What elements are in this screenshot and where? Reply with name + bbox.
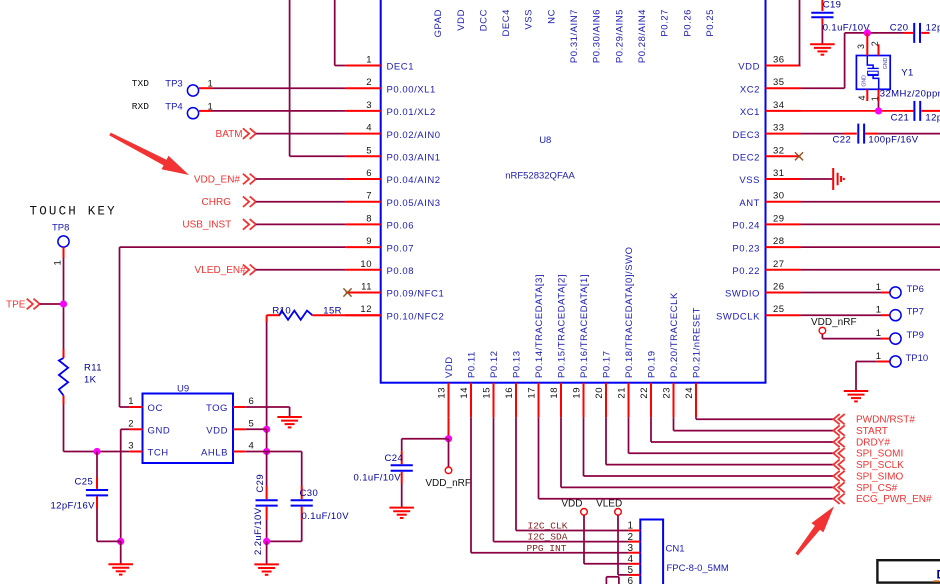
- svg-text:TP3: TP3: [165, 79, 182, 90]
- U8 pin 30 name: [739, 198, 760, 209]
- svg-text:ECG_PWR_EN#: ECG_PWR_EN#: [856, 494, 932, 505]
- U8 pin 28 name: [732, 243, 760, 254]
- wire SWDCLK to TP7: [801, 314, 890, 316]
- C22 value: [868, 135, 918, 146]
- C19 designator: [823, 0, 842, 11]
- capacitor C22 100pF/16V: [858, 124, 940, 144]
- svg-text:4: 4: [627, 554, 633, 565]
- U8 pin 33 number: [773, 123, 785, 134]
- svg-text:P0.12: P0.12: [489, 350, 500, 378]
- svg-text:P0.27: P0.27: [660, 9, 671, 37]
- U8 pin 20 P0.17 stub: [605, 383, 607, 418]
- svg-text:2.2uF/10V: 2.2uF/10V: [253, 507, 264, 555]
- svg-text:DCC: DCC: [478, 9, 489, 31]
- junction C25 bottom / GND: [117, 538, 124, 545]
- port SPI_SIMO chevron: [833, 471, 844, 481]
- svg-text:36: 36: [773, 55, 785, 66]
- ground below U9 GND: [108, 541, 133, 574]
- U8 pin 19 P0.16/TRACEDATA[1] stub: [583, 383, 585, 418]
- wire VLED to CN1 pin5: [618, 515, 629, 575]
- U9 pin 4 name: [201, 448, 228, 459]
- svg-text:100pF/16V: 100pF/16V: [868, 135, 918, 146]
- section title TOUCH KEY: [30, 205, 117, 219]
- TP7 pin1 number: [876, 305, 881, 316]
- C20 value 12p: [926, 23, 940, 34]
- U8 pin 34 name: [740, 107, 760, 118]
- testpoint TP9 circle: [890, 333, 901, 344]
- port USB_INST chevron: [243, 219, 256, 230]
- svg-text:GND: GND: [883, 57, 889, 69]
- CN1 pin 2 stub: [629, 541, 641, 543]
- R10 value 15R: [323, 306, 342, 317]
- svg-text:VSS: VSS: [524, 9, 535, 30]
- U9 pin 6 name: [206, 403, 228, 414]
- svg-text:3: 3: [627, 543, 633, 554]
- svg-text:SWDCLK: SWDCLK: [716, 311, 760, 322]
- testpoint TP4 label: [165, 101, 182, 112]
- U8 top pin P0.27 name (rotated): [660, 9, 671, 37]
- svg-text:13: 13: [436, 387, 447, 399]
- svg-text:XC2: XC2: [740, 84, 760, 95]
- resistor R10 15R: [267, 311, 381, 320]
- port TPE chevron: [27, 299, 40, 310]
- svg-text:32MHz/20ppm: 32MHz/20ppm: [880, 89, 940, 100]
- U8 pin 24 P0.21/nRESET stub: [695, 383, 697, 418]
- svg-text:P0.23: P0.23: [732, 243, 760, 254]
- port BATM label: [216, 129, 243, 140]
- annotation arrow pointing at VDD_EN#: [109, 133, 189, 175]
- U8 pin 6 P0.04/AIN2 stub: [346, 178, 381, 180]
- CN1 designator: [666, 544, 685, 555]
- U8 pin 34 number: [773, 100, 785, 111]
- svg-text:2: 2: [627, 532, 633, 543]
- svg-text:P0.31/AIN7: P0.31/AIN7: [569, 9, 580, 63]
- CN1 pin 4 stub: [629, 563, 641, 565]
- U8 pin 20 number (rotated): [594, 387, 605, 399]
- svg-text:22: 22: [639, 387, 650, 399]
- junction R10 net / AHLB: [263, 448, 270, 455]
- U8 pin 22 name (rotated): [647, 350, 658, 378]
- svg-text:DEC1: DEC1: [387, 62, 415, 73]
- ground below C29: [254, 541, 279, 574]
- wire U9 GND to ground: [121, 429, 130, 541]
- svg-text:0.1uF/10V: 0.1uF/10V: [354, 473, 402, 484]
- C22 designator: [833, 135, 852, 146]
- svg-text:19: 19: [571, 387, 582, 399]
- svg-text:1: 1: [876, 282, 881, 293]
- svg-text:P0.05/AIN3: P0.05/AIN3: [387, 198, 441, 209]
- U8 top pin VDD name (rotated): [456, 9, 467, 31]
- capacitor C20 12p: [904, 23, 930, 43]
- Y1 crystal symbol: [867, 56, 878, 90]
- wire DEC1 net from top: [335, 0, 346, 66]
- U8 pin 36 VDD stub: [766, 65, 801, 67]
- testpoint TP10 circle: [890, 356, 901, 367]
- svg-text:5: 5: [249, 419, 254, 430]
- U8 pin 13 number (rotated): [436, 387, 447, 399]
- svg-text:P0.10/NFC2: P0.10/NFC2: [387, 311, 445, 322]
- U8 pin 33 name: [732, 130, 760, 141]
- U8 pin 4 name: [387, 130, 441, 141]
- capacitor C19 0.1uF/10V: [811, 0, 833, 44]
- svg-text:P0.21/nRESET: P0.21/nRESET: [692, 307, 703, 378]
- C20 designator: [890, 23, 909, 34]
- U8 pin 10 P0.08 stub: [346, 269, 381, 271]
- svg-text:1: 1: [870, 96, 880, 101]
- svg-text:P0.28/AIN4: P0.28/AIN4: [637, 9, 648, 63]
- wire U9 TOG to ground: [246, 407, 290, 417]
- U8 pin 22 P0.19 stub: [650, 383, 652, 418]
- port ECG_PWR_EN# label: [856, 494, 932, 505]
- svg-text:P0.11: P0.11: [467, 351, 478, 378]
- U8 pin 8 number: [366, 213, 372, 224]
- U8 top pin P0.26 name (rotated): [682, 9, 693, 37]
- wire ECG_PWR_EN# from U8 pin 17: [539, 417, 834, 499]
- svg-text:TP8: TP8: [52, 223, 69, 234]
- svg-text:P0.20/TRACECLK: P0.20/TRACECLK: [669, 292, 680, 378]
- U8 pin 30 ANT stub: [766, 201, 801, 203]
- svg-text:TP4: TP4: [165, 101, 182, 112]
- C25 value: [51, 500, 96, 511]
- U8 pin 21 name (rotated): [624, 246, 635, 378]
- U8 pin 1 number: [366, 55, 372, 66]
- power port VDD_nRF at pin13: [445, 439, 452, 474]
- svg-text:nRF52832QFAA: nRF52832QFAA: [505, 170, 575, 181]
- svg-text:25: 25: [773, 304, 785, 315]
- svg-text:VDD: VDD: [456, 9, 467, 31]
- svg-text:P0.18/TRACEDATA[0]/SWO: P0.18/TRACEDATA[0]/SWO: [624, 246, 635, 378]
- svg-text:Y1: Y1: [901, 68, 913, 79]
- wire VSS to ground: [801, 178, 833, 180]
- port VLED_EN# chevron: [243, 265, 256, 276]
- U8 pin 3 name: [387, 107, 436, 118]
- wire SPI_SOMI from U8 pin 21: [629, 417, 834, 453]
- U8 top pin P0.29/AIN5 name (rotated): [614, 9, 625, 63]
- wire SPI_SIMO from U8 pin 19: [584, 417, 834, 476]
- U9 pin 4 number: [249, 441, 254, 452]
- svg-text:VDD_nRF: VDD_nRF: [425, 478, 471, 489]
- svg-text:29: 29: [773, 213, 785, 224]
- Y1 pin 4 stub: [866, 89, 868, 101]
- wire SPI_CS# from U8 pin 18: [561, 417, 833, 487]
- U8 pin 5 P0.03/AIN1 stub: [346, 155, 381, 157]
- svg-text:FPC-8-0_5MM: FPC-8-0_5MM: [667, 563, 729, 574]
- U8 pin 1 name: [387, 62, 415, 73]
- svg-text:DEC3: DEC3: [732, 130, 760, 141]
- ground below C19: [810, 44, 835, 54]
- port SPI_CS# chevron: [833, 482, 844, 492]
- VDD_nRF label at pin13: [425, 478, 471, 489]
- svg-text:P0.03/AIN1: P0.03/AIN1: [387, 153, 441, 164]
- svg-text:D: D: [937, 568, 940, 582]
- U8 pin 12 number: [360, 304, 372, 315]
- power port VDD_nRF at TP9: [811, 317, 857, 334]
- svg-text:1: 1: [128, 396, 133, 407]
- svg-text:P0.30/AIN6: P0.30/AIN6: [592, 9, 603, 63]
- svg-text:5: 5: [366, 145, 372, 156]
- U9 pin 3 TCH stub: [130, 451, 143, 453]
- Y1 pin 3 wire: [866, 33, 868, 56]
- wire ANT net: [801, 201, 940, 203]
- wire P0.12 to CN1 pin2 I2C_SDA: [494, 417, 629, 541]
- wire START from U8 pin 23: [674, 417, 834, 430]
- testpoint TP8 circle: [58, 236, 69, 247]
- testpoint TP3 pin1 number: [208, 79, 213, 90]
- U8 pin 14 P0.11 stub: [470, 383, 472, 418]
- svg-text:PWDN/RST#: PWDN/RST#: [856, 415, 915, 426]
- U8 pin 8 name: [387, 221, 415, 232]
- port VDD_EN# label: [194, 174, 241, 185]
- svg-text:CN1: CN1: [666, 544, 685, 555]
- Y1 pin2 number (rotated): [870, 41, 880, 46]
- svg-text:VDD: VDD: [206, 425, 228, 436]
- svg-text:7: 7: [366, 191, 372, 202]
- U8 pin 3 number: [366, 100, 372, 111]
- svg-text:26: 26: [773, 282, 785, 293]
- svg-text:P0.14/TRACEDATA[3]: P0.14/TRACEDATA[3]: [534, 274, 545, 378]
- svg-text:20: 20: [594, 387, 605, 399]
- port CHRG label: [202, 197, 232, 208]
- U8 pin 26 SWDIO stub: [766, 292, 801, 294]
- svg-text:P0.25: P0.25: [705, 9, 716, 37]
- U8 pin 2 P0.00/XL1 stub: [346, 87, 381, 89]
- junction TCH / C25: [93, 448, 100, 455]
- svg-text:C29: C29: [255, 474, 266, 493]
- CN1 pin 6 number: [627, 576, 633, 584]
- TP6 label: [907, 284, 924, 295]
- svg-text:TXD: TXD: [132, 78, 149, 89]
- U8 pin 14 number (rotated): [459, 387, 470, 399]
- wire R10 to U9 VDD net: [266, 315, 268, 429]
- U8 pin 27 P0.22 stub: [766, 269, 801, 271]
- TP9 label: [907, 330, 924, 341]
- U9 pin 3 number: [128, 441, 133, 452]
- U8 pin 24 number (rotated): [684, 387, 695, 399]
- testpoint TP4 circle: [187, 108, 198, 119]
- U8 pin 9 P0.07 stub: [346, 246, 381, 248]
- testpoint TP8 label: [52, 223, 69, 234]
- U8 pin 21 P0.18/TRACEDATA[0]/SWO stub: [628, 383, 630, 418]
- svg-text:GPAD: GPAD: [433, 9, 444, 37]
- svg-text:TPE: TPE: [6, 299, 26, 310]
- svg-text:TP6: TP6: [907, 284, 924, 295]
- U8 pin 17 name (rotated): [534, 274, 545, 378]
- svg-text:5: 5: [627, 565, 633, 576]
- svg-text:SPI_CS#: SPI_CS#: [856, 483, 898, 494]
- U8 top pin GPAD name (rotated): [433, 9, 444, 37]
- svg-text:P0.00/XL1: P0.00/XL1: [387, 84, 436, 95]
- U9 pin 1 number: [128, 396, 133, 407]
- U8 pin 15 name (rotated): [489, 350, 500, 378]
- U9 pin 5 name: [206, 425, 228, 436]
- U8 pin 4 P0.02/AIN0 stub: [346, 133, 381, 135]
- U8 pin 29 name: [732, 221, 760, 232]
- svg-text:14: 14: [459, 387, 470, 399]
- testpoint TP3 circle: [187, 85, 198, 96]
- svg-text:VLED: VLED: [596, 499, 622, 510]
- svg-text:SWDIO: SWDIO: [725, 289, 760, 300]
- Y1 pin1 number (rotated): [870, 96, 880, 101]
- svg-text:35: 35: [773, 77, 785, 88]
- svg-text:VDD_EN#: VDD_EN#: [194, 174, 241, 185]
- wire USB_INST to U8: [256, 223, 346, 225]
- U8 pin 7 name: [387, 198, 441, 209]
- svg-text:DEC4: DEC4: [501, 9, 512, 37]
- wire P0.22 net: [801, 269, 940, 271]
- wire P0.13 to CN1 pin1 I2C_CLK: [516, 417, 629, 530]
- svg-text:P0.17: P0.17: [602, 350, 613, 378]
- U8 pin 27 number: [773, 259, 785, 270]
- C24 designator: [385, 453, 404, 464]
- wire P0.03/AIN1 net from top: [290, 0, 346, 156]
- CN1 pin 3 stub: [629, 552, 641, 554]
- svg-text:1K: 1K: [84, 375, 97, 386]
- svg-text:P0.08: P0.08: [387, 266, 415, 277]
- port SPI_SOMI chevron: [833, 448, 844, 458]
- svg-text:6: 6: [627, 576, 633, 584]
- CN1 pin 5 number: [627, 565, 633, 576]
- U8 pin 19 number (rotated): [571, 387, 582, 399]
- CN1 pin 1 stub: [629, 530, 641, 532]
- svg-text:P0.09/NFC1: P0.09/NFC1: [387, 289, 445, 300]
- svg-text:12pF/16V: 12pF/16V: [51, 500, 96, 511]
- R11 value 1K: [84, 375, 97, 386]
- testpoint TP4 pin1 number: [208, 101, 213, 112]
- U9 designator: [177, 384, 189, 395]
- svg-text:CHRG: CHRG: [202, 197, 232, 208]
- U8 pin 25 name: [716, 311, 760, 322]
- svg-text:VDD: VDD: [444, 356, 455, 378]
- CN1 part FPC-8-0_5MM: [667, 563, 729, 574]
- port USB_INST label: [182, 220, 231, 231]
- wire BATM to U8: [256, 133, 346, 135]
- ground below C24: [389, 508, 414, 518]
- U9 pin 2 GND stub: [130, 428, 143, 430]
- U8 pin 18 P0.15/TRACEDATA[2] stub: [560, 383, 562, 418]
- port VLED_EN# label: [195, 265, 247, 276]
- svg-text:TP7: TP7: [907, 307, 924, 318]
- U8 pin 35 XC2 stub: [766, 87, 801, 89]
- junction XC1/Y1/C21: [875, 107, 882, 114]
- R10 designator: [272, 306, 291, 317]
- crystal Y1 body: [856, 56, 890, 90]
- power port VDD at CN1: [561, 499, 587, 515]
- svg-text:SPI_SIMO: SPI_SIMO: [856, 471, 903, 482]
- svg-text:VDD_nRF: VDD_nRF: [811, 317, 857, 328]
- net label I2C_CLK: [528, 520, 568, 531]
- U8 pin 34 XC1 stub: [766, 110, 801, 112]
- svg-text:C21: C21: [891, 113, 910, 124]
- U8 top pin NC name (rotated): [546, 9, 557, 24]
- C29 designator (rotated): [255, 474, 266, 493]
- C24 value: [354, 473, 402, 484]
- wire U9 VDD to R10 net: [246, 428, 267, 430]
- CN1 pin 4 number: [627, 554, 633, 565]
- testpoint TP6 circle: [890, 287, 901, 298]
- U8 top pin P0.28/AIN4 name (rotated): [637, 9, 648, 63]
- svg-text:U8: U8: [539, 135, 551, 146]
- C25 designator: [75, 477, 94, 488]
- net label I2C_SDA: [528, 531, 568, 542]
- U8 pin 17 number (rotated): [526, 387, 537, 399]
- wire VDD_nRF to TP9: [822, 334, 889, 339]
- U8 pin 15 number (rotated): [481, 387, 492, 399]
- capacitor C25 12pF/16V: [86, 452, 121, 542]
- svg-text:31: 31: [773, 168, 785, 179]
- svg-text:12p: 12p: [925, 113, 940, 124]
- U8 pin 11 name: [387, 289, 445, 300]
- svg-text:2: 2: [366, 77, 372, 88]
- svg-text:P0.29/AIN5: P0.29/AIN5: [614, 9, 625, 63]
- svg-text:0.1uF/10V: 0.1uF/10V: [302, 511, 350, 522]
- svg-text:1: 1: [53, 260, 64, 265]
- U9 pin 5 VDD stub: [233, 428, 246, 430]
- U8 pin 30 number: [773, 191, 785, 202]
- wire XC2 to Y1/C20: [801, 33, 904, 88]
- U8 pin 26 number: [773, 282, 785, 293]
- C19 value: [823, 22, 871, 33]
- wire P0.11 to CN1 pin3 PPG INT: [471, 417, 629, 553]
- svg-text:1: 1: [627, 521, 633, 532]
- connector CN1 body: [640, 520, 663, 584]
- svg-text:DRDY#: DRDY#: [856, 437, 890, 448]
- U8 pin 20 name (rotated): [602, 350, 613, 378]
- wire U8 P0.07 to U9 OC: [120, 247, 346, 407]
- CN1 pin 5 stub: [629, 574, 641, 576]
- wire TP4 to U8: [199, 110, 346, 112]
- svg-text:NC: NC: [546, 9, 557, 24]
- svg-text:6: 6: [366, 168, 372, 179]
- svg-text:I2C_SDA: I2C_SDA: [528, 531, 568, 542]
- no-connect X on DEC2: [795, 152, 803, 160]
- CN1 pin 2 number: [627, 532, 633, 543]
- C21 value 12p: [925, 113, 940, 124]
- svg-text:AHLB: AHLB: [201, 448, 228, 459]
- wire DRDY# from U8 pin 22: [651, 417, 833, 442]
- svg-text:34: 34: [773, 100, 785, 111]
- U8 pin 31 number: [773, 168, 785, 179]
- wire VLED_EN# to U8: [256, 269, 346, 271]
- U8 pin 8 P0.06 stub: [346, 223, 381, 225]
- svg-text:DEC2: DEC2: [732, 153, 760, 164]
- IC U8 nRF52832QFAA body: [381, 0, 766, 383]
- svg-text:4: 4: [857, 95, 867, 100]
- U8 top pin P0.30/AIN6 name (rotated): [592, 9, 603, 63]
- junction pin13/C24/VDD_nRF: [445, 435, 452, 442]
- svg-text:6: 6: [249, 396, 254, 407]
- U8 pin 26 name: [725, 289, 760, 300]
- U8 pin 18 name (rotated): [557, 274, 568, 378]
- svg-text:33: 33: [773, 123, 785, 134]
- svg-text:28: 28: [773, 236, 785, 247]
- wire TPE to TP8 net: [40, 303, 64, 305]
- svg-text:P0.24: P0.24: [732, 221, 760, 232]
- U9 pin 6 number: [249, 396, 254, 407]
- capacitor C24 0.1uF/10V: [391, 439, 449, 508]
- U8 top pin DEC4 name (rotated): [501, 9, 512, 37]
- svg-text:R10: R10: [272, 306, 291, 317]
- svg-text:P0.01/XL2: P0.01/XL2: [387, 107, 436, 118]
- U9 pin 3 name: [148, 448, 169, 459]
- U8 pin 19 name (rotated): [579, 274, 590, 378]
- U8 pin 23 number (rotated): [661, 387, 672, 399]
- U8 pin 24 name (rotated): [692, 307, 703, 378]
- wire U9 AHLB: [246, 451, 267, 453]
- U8 pin 23 P0.20/TRACECLK stub: [673, 383, 675, 418]
- svg-text:RXD: RXD: [132, 101, 149, 112]
- svg-text:P0.04/AIN2: P0.04/AIN2: [387, 175, 441, 186]
- wire XC1 to Y1 pin1/C21: [801, 110, 905, 112]
